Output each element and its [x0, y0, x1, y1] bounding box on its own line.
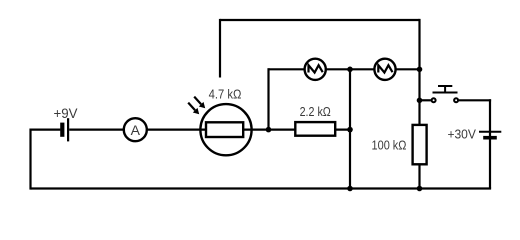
junction bottom rail x419.5	[417, 186, 423, 192]
switch S1 bridge bar	[433, 92, 458, 94]
junction bottom rail x350	[347, 186, 353, 192]
junction lamp row right	[417, 67, 423, 73]
lamp L1 body	[305, 59, 326, 80]
lamp L1 filament zigzag	[309, 65, 323, 72]
wire stub from top rail down to LDR (hidden under label)	[219, 19, 221, 78]
LDR light arrow 1 head	[199, 102, 205, 108]
LDR light arrow 2 head	[193, 108, 199, 114]
wire right battery vertical	[489, 99, 491, 188]
svg-text:100 kΩ: 100 kΩ	[372, 137, 407, 152]
wire right vertical through 100k branch	[418, 19, 420, 189]
wire bottom rail	[31, 187, 492, 189]
switch S1 stem	[444, 86, 446, 93]
wire vertical at x=350 lamp row to bottom rail	[349, 68, 351, 188]
LDR light arrow 1 shaft	[194, 97, 201, 105]
svg-text:+9V: +9V	[54, 105, 79, 121]
wire main row battery to node	[31, 129, 61, 131]
junction 2.2k right	[347, 127, 353, 133]
junction node A (LDR output)	[266, 127, 272, 133]
resistor R3 100 kΩ body	[413, 125, 427, 164]
wire switch row	[420, 99, 431, 101]
svg-text:2.2 kΩ: 2.2 kΩ	[300, 104, 331, 119]
resistor R2 2.2 kΩ body	[295, 122, 335, 136]
switch S1 left contact	[432, 98, 436, 102]
svg-text:A: A	[131, 122, 141, 138]
switch S1 push-button cap bar	[438, 85, 452, 87]
battery B1 +9V negative plate (short thick)	[60, 123, 64, 137]
lamp L2 body	[374, 59, 395, 80]
LDR inner resistor box	[206, 122, 243, 137]
wire left vertical	[29, 129, 31, 190]
wire main row through ammeter, LDR, 2.2k resistor	[69, 129, 350, 131]
battery B2 +30V negative plate (short thick)	[483, 136, 497, 140]
ammeter M1 body	[124, 118, 147, 141]
wire top rail	[220, 19, 420, 21]
wire lamp row	[269, 68, 420, 70]
svg-text:+30V: +30V	[447, 127, 476, 142]
battery B1 +9V positive plate (long thin)	[67, 118, 69, 141]
junction lamp row mid	[347, 67, 353, 73]
svg-text:4.7 kΩ: 4.7 kΩ	[209, 87, 242, 102]
lamp L2 filament zigzag	[378, 65, 392, 72]
junction switch branch	[417, 98, 423, 104]
LDR light arrow 2 shaft	[188, 103, 195, 111]
wire vertical from node A up to lamp row	[267, 68, 269, 129]
battery B2 +30V positive plate (long thin)	[479, 131, 501, 133]
switch S1 right contact	[454, 98, 458, 102]
photoresistor LDR R1 body circle	[200, 104, 251, 155]
wire switch to +30V battery	[459, 99, 491, 101]
